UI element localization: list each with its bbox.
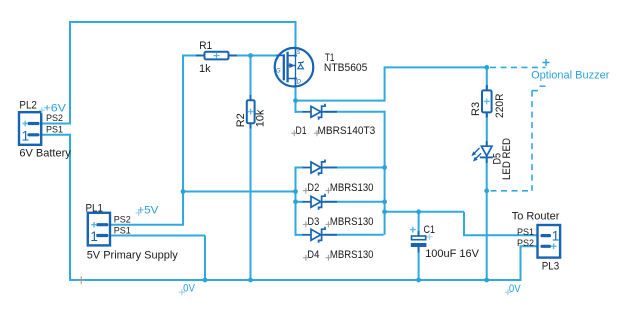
wire 0V: PL1 PS1 pin to corner (111, 235, 205, 237)
junction LED on rail (484, 278, 489, 283)
wire drain net: junction right (296, 100, 385, 102)
svg-text:+6V: +6V (44, 103, 67, 115)
wire +5V: vertical up to R1 row (182, 56, 184, 226)
svg-text:R1: R1 (199, 40, 212, 52)
junction +5V at R1 riser (181, 189, 186, 194)
svg-text:6V Battery: 6V Battery (19, 148, 71, 160)
wire output net: cathode bus vertical (384, 111, 386, 235)
wire drain net: up to R3 row (384, 67, 386, 101)
svg-text:PL2: PL2 (19, 99, 37, 111)
grid cross on rail (77, 276, 85, 284)
wire +5V: anode bus vertical (295, 167, 297, 236)
svg-text:PS1: PS1 (46, 124, 63, 134)
svg-text:0V: 0V (509, 283, 521, 295)
wire +5V: stub to D2 anode (295, 167, 304, 169)
wire 0V: PL2 PS1 pin to corner (42, 134, 71, 136)
svg-text:R2: R2 (235, 113, 247, 127)
origin cross MBRS130 D4 (325, 255, 331, 261)
wire optional buzzer minus to LED junction: dashed (491, 190, 533, 192)
wire optional buzzer plus: dashed (490, 66, 546, 68)
svg-text:LED RED: LED RED (501, 138, 513, 180)
origin cross D2 (303, 188, 309, 194)
svg-text:100uF 16V: 100uF 16V (425, 248, 479, 260)
resistor R3 (482, 85, 492, 118)
junction C1 top (416, 209, 421, 214)
diode D3 (303, 194, 338, 210)
wire output net: D3 cathode to bus (325, 201, 385, 203)
svg-text:5V Primary Supply: 5V Primary Supply (87, 249, 179, 261)
junction R3 top (484, 65, 489, 70)
resistor R1 (196, 52, 237, 60)
svg-text:MBRS130: MBRS130 (330, 182, 374, 194)
junction LED buzzer tap (484, 188, 489, 193)
diode D1 (303, 104, 338, 120)
junction output corner (382, 209, 387, 214)
junction gate R1-R2 (248, 53, 253, 58)
junction D3 anode (293, 199, 298, 204)
svg-text:S: S (297, 50, 301, 56)
svg-text:1: 1 (552, 228, 560, 243)
connector PL2 (19, 112, 41, 145)
wire gate net: R1 right to T1 gate (229, 55, 279, 57)
wire gate net: down to R2 top (250, 56, 252, 101)
wire 0V: R2 bottom to rail (250, 124, 252, 281)
wire 0V: left vertical down (69, 134, 71, 280)
wire optional buzzer minus stub: dashed (532, 90, 543, 92)
svg-text:PS2: PS2 (114, 214, 131, 224)
svg-text:D4: D4 (307, 249, 319, 261)
svg-text:C1: C1 (424, 224, 436, 236)
wire drain net: right to R3 top junction (384, 66, 487, 68)
junction T1 drain (293, 98, 298, 103)
diode D4 (303, 227, 338, 243)
svg-text:1k: 1k (199, 63, 211, 75)
svg-text:D1: D1 (296, 125, 307, 137)
wire +5V: stub to D3 anode (295, 201, 304, 203)
wire 0V: PL1 PS1 down to rail (204, 236, 206, 281)
origin cross 0V right (505, 289, 511, 295)
svg-text:NTB5605: NTB5605 (324, 62, 368, 74)
wire optional buzzer minus vertical: dashed (531, 91, 533, 191)
origin cross MBRS130 D2 (325, 188, 331, 194)
origin cross +5V (136, 210, 142, 216)
origin cross D1 (291, 130, 297, 136)
svg-text:PS2: PS2 (517, 238, 534, 248)
wire 0V: C1 bottom to rail (418, 247, 420, 280)
wire output net: C1 top lead (418, 212, 420, 236)
resistor R2 (247, 95, 255, 129)
junction +5V at anode bus (293, 189, 298, 194)
svg-text:1: 1 (90, 229, 98, 244)
origin cross +6V (39, 107, 45, 113)
svg-text:MBRS140T3: MBRS140T3 (318, 125, 376, 137)
junction C1 on rail (416, 278, 421, 283)
svg-text:D3: D3 (307, 216, 319, 228)
wire +6V: PL2 PS2 pin to corner (42, 123, 71, 125)
svg-text:10k: 10k (255, 109, 267, 127)
diode D2 (303, 160, 338, 176)
wire drain net: corner to D1 anode (295, 111, 304, 113)
wire +5V: PL1 PS2 pin to corner (111, 224, 183, 226)
origin cross 0V left (179, 289, 185, 295)
wire LED net: R3 bottom to LED anode (486, 112, 488, 146)
svg-text:220R: 220R (494, 93, 506, 118)
wire +6V: down into T1 source (295, 21, 297, 49)
svg-text:G: G (276, 69, 281, 75)
svg-text:Optional Buzzer: Optional Buzzer (531, 70, 610, 82)
transistor T1 (P-MOSFET in circle) (275, 48, 314, 87)
connector PL1 (88, 213, 110, 246)
junction R2 on rail (248, 278, 253, 283)
wire output net: D4 cathode to bus riser (325, 234, 384, 236)
junction D3 cathode (382, 199, 387, 204)
wire 0V: up to PL3 PS2 (520, 246, 522, 281)
wire 0V: LED cathode down to rail (486, 158, 488, 280)
wire 0V: bottom rail (69, 279, 521, 281)
svg-text:R3: R3 (470, 102, 482, 116)
wire drain net: T1 drain down to junction (295, 86, 297, 113)
svg-text:D: D (297, 80, 302, 86)
svg-text:PL1: PL1 (86, 202, 104, 214)
wire +5V: stub to D4 anode (295, 234, 304, 236)
svg-text:0V: 0V (183, 283, 195, 295)
capacitor C1 (410, 227, 433, 253)
origin cross D4 (303, 255, 309, 261)
LED D5 (471, 141, 493, 163)
svg-text:To Router: To Router (512, 211, 560, 223)
svg-text:PS1: PS1 (517, 227, 534, 237)
origin cross MBRS140T3 (314, 130, 320, 136)
wire +6V: top horizontal (69, 21, 296, 23)
wire output net: to PL3 PS1 pin (463, 234, 537, 236)
origin cross D3 (303, 221, 309, 227)
wire output net: D2 cathode to bus (325, 167, 385, 169)
buzzer plus mark (543, 59, 550, 66)
svg-text:D2: D2 (307, 182, 319, 194)
wire +5V: horizontal to diode anode bus (183, 191, 296, 193)
wire 0V: into PL3 PS2 pin (520, 245, 538, 247)
junction D2 cathode (382, 165, 387, 170)
svg-text:MBRS130: MBRS130 (330, 249, 374, 261)
wire output net: D1 cathode to bus (325, 111, 385, 113)
svg-text:PL3: PL3 (542, 260, 560, 272)
wire LED net: R3 top lead (486, 66, 488, 90)
svg-text:+5V: +5V (137, 204, 159, 216)
svg-text:1: 1 (22, 128, 30, 143)
svg-text:MBRS130: MBRS130 (330, 216, 374, 228)
wire output net: bus corner right (385, 211, 464, 213)
origin cross MBRS130 D3 (325, 221, 331, 227)
junction PL1 PS1 on rail (203, 278, 208, 283)
wire +6V: left vertical up (69, 21, 71, 125)
buzzer minus mark (540, 85, 546, 87)
svg-text:PS1: PS1 (114, 226, 131, 236)
wire output net: down jog (463, 212, 465, 236)
wire +5V: corner to R1 left (182, 55, 205, 57)
connector PL3 (538, 225, 561, 258)
